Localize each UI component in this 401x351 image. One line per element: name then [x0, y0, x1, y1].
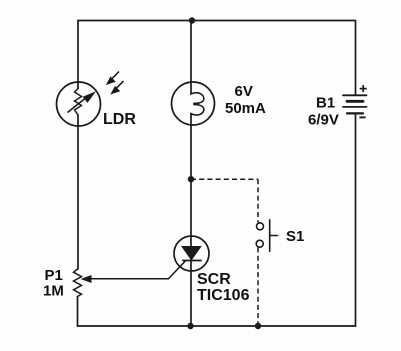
svg-text:50mA: 50mA — [225, 100, 266, 117]
svg-text:S1: S1 — [286, 228, 304, 245]
svg-text:TIC106: TIC106 — [197, 287, 250, 304]
svg-text:B1: B1 — [316, 95, 335, 112]
svg-text:1M: 1M — [43, 282, 64, 299]
svg-text:LDR: LDR — [103, 111, 136, 128]
svg-text:6V: 6V — [235, 83, 253, 100]
svg-text:6/9V: 6/9V — [308, 112, 339, 129]
svg-text:SCR: SCR — [197, 271, 231, 288]
